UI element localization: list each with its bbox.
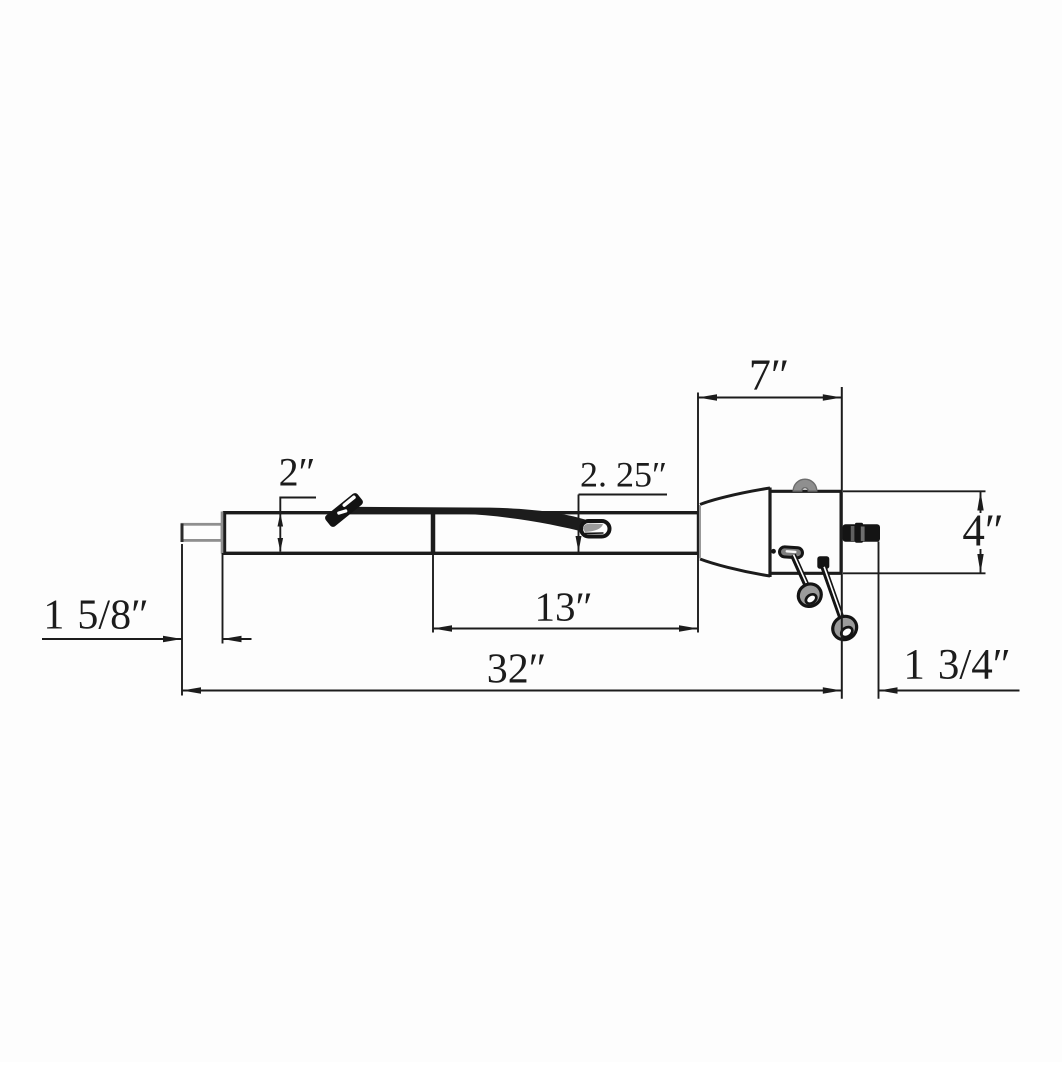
dim 7in <box>698 394 842 400</box>
extension line x182 (32in left) <box>181 544 183 696</box>
main column tube <box>222 512 699 554</box>
shift linkage rod (thick, curving to knob) <box>345 507 588 533</box>
top clamp half-ring <box>793 479 817 491</box>
svg-text:2″: 2″ <box>279 450 316 495</box>
svg-text:2. 25″: 2. 25″ <box>580 455 667 495</box>
dim 2in: leader + double arrow <box>278 498 317 552</box>
ignition key cylinder <box>843 523 881 543</box>
linkage end knob <box>581 521 610 537</box>
dim 1 3/4 outside arrow <box>879 687 1020 693</box>
svg-text:13″: 13″ <box>534 584 592 630</box>
input shaft stub (left end) <box>182 524 222 543</box>
svg-text:15/8″: 15/8″ <box>43 593 148 639</box>
tube section divider at 13in start <box>431 512 436 555</box>
extension lines 4in (horizontal) <box>843 490 986 492</box>
svg-text:4″: 4″ <box>962 506 1003 556</box>
extension line x878.5 (1 3/4 right) <box>878 542 880 699</box>
dim 32in <box>182 687 842 693</box>
dim 2.25in: leader + down arrow <box>576 495 668 553</box>
dim 1 5/8 outside arrows <box>42 636 252 642</box>
extension line x433 (13in left) <box>432 554 434 633</box>
svg-text:32″: 32″ <box>487 647 547 693</box>
right wiper lever <box>817 556 861 644</box>
extension line x222.5 (1 5/8 right) <box>222 553 224 644</box>
extension line x698 (7in left / 13in right) <box>697 393 699 633</box>
housing box <box>770 490 842 575</box>
svg-text:7″: 7″ <box>749 351 789 400</box>
flare cone to housing <box>700 488 771 578</box>
left turn-signal lever <box>771 547 826 611</box>
extension line x842 (7in right / 32in right) <box>841 387 843 699</box>
svg-text:13/4″: 13/4″ <box>903 642 1010 689</box>
dim 4in <box>977 492 983 574</box>
shift lever paddle <box>324 492 365 529</box>
dim 13in <box>433 625 698 631</box>
